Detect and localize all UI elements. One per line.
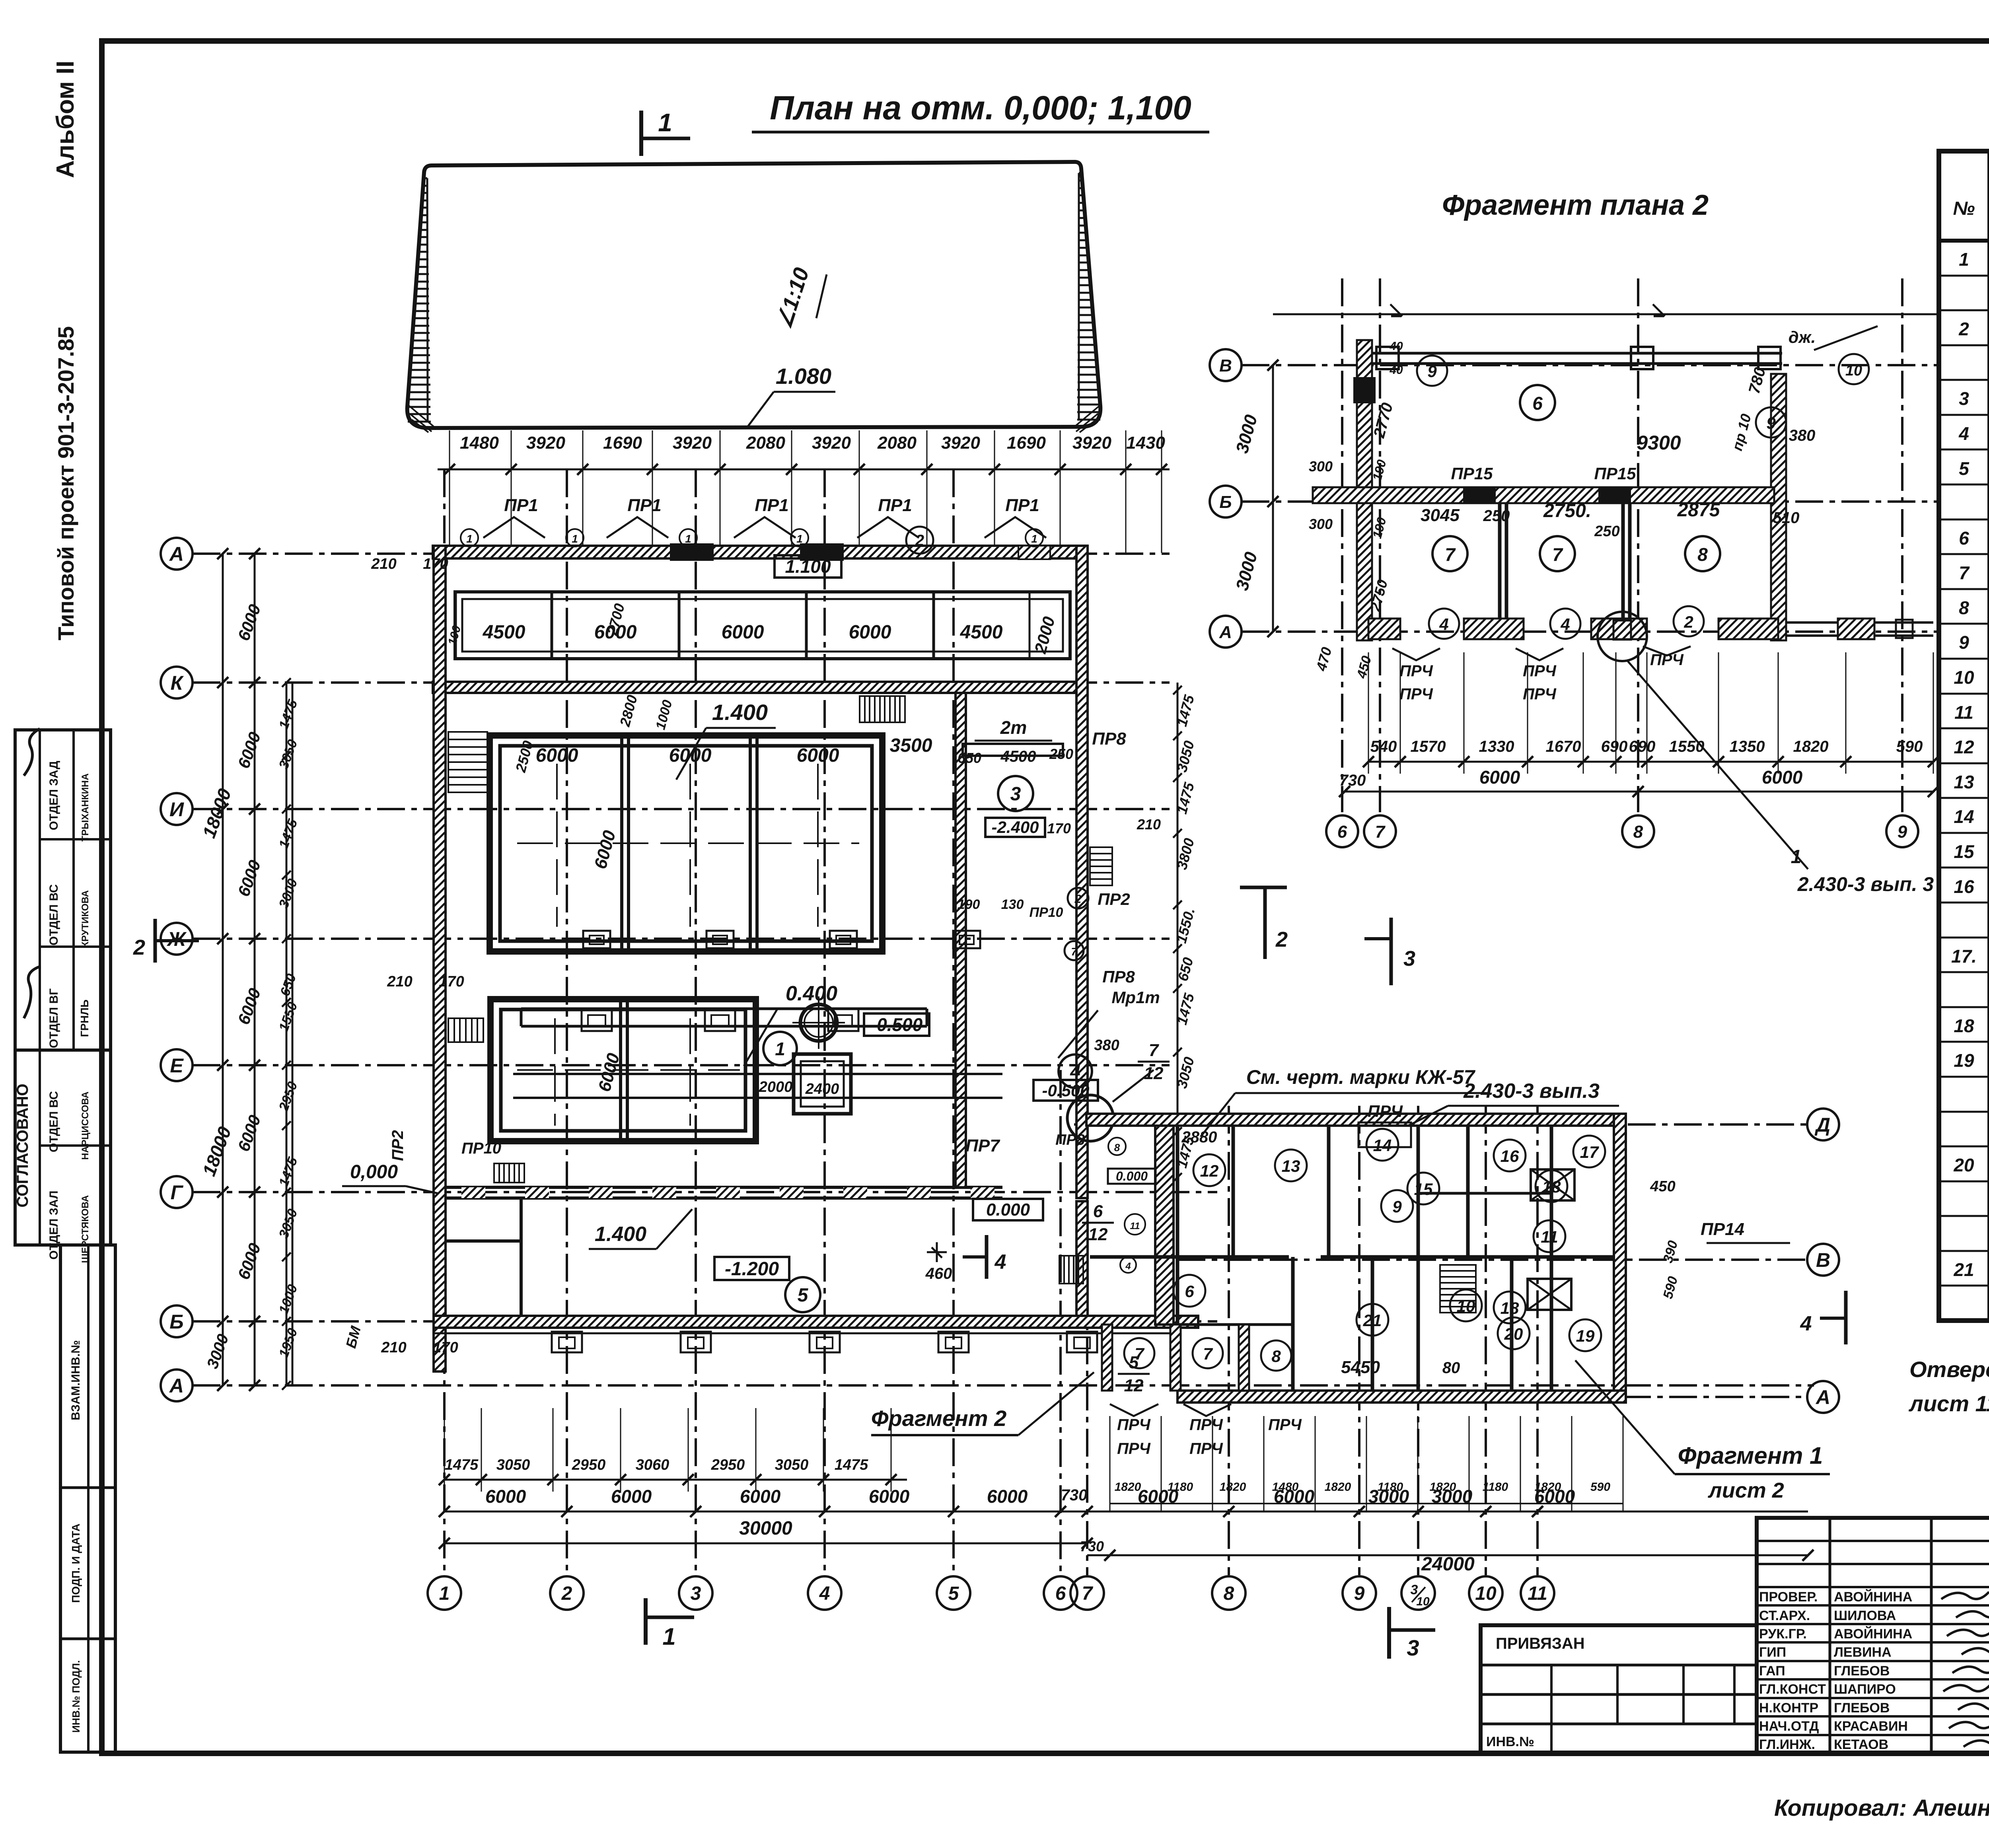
- svg-text:1475: 1475: [445, 1457, 479, 1473]
- svg-text:1: 1: [796, 533, 803, 545]
- svg-text:6000: 6000: [1274, 1486, 1315, 1507]
- svg-text:12: 12: [1200, 1161, 1219, 1180]
- svg-text:См. черт. марки КЖ-57: См. черт. марки КЖ-57: [1246, 1066, 1476, 1088]
- svg-text:300: 300: [1309, 516, 1333, 532]
- wall axis A top: [433, 546, 1088, 558]
- room circle 1: [763, 1032, 797, 1065]
- wing partition axis V: [1090, 1255, 1289, 1259]
- svg-text:1480: 1480: [460, 433, 499, 453]
- svg-text:6000: 6000: [611, 1486, 652, 1507]
- svg-text:ПР8: ПР8: [1102, 967, 1135, 986]
- upper tanks outer: [490, 735, 882, 951]
- svg-text:730: 730: [1080, 1538, 1104, 1554]
- room circle 3: [998, 776, 1033, 811]
- svg-text:6000: 6000: [536, 745, 578, 766]
- svg-text:40: 40: [1389, 364, 1403, 377]
- svg-text:2880: 2880: [1181, 1128, 1217, 1146]
- roof right cut hatch: [1079, 172, 1082, 174]
- svg-text:3920: 3920: [941, 433, 980, 453]
- svg-text:1: 1: [466, 533, 473, 545]
- svg-text:9: 9: [1898, 822, 1907, 842]
- svg-text:15: 15: [1954, 841, 1975, 862]
- svg-text:2т: 2т: [1000, 717, 1027, 738]
- right dim chain: [1177, 683, 1179, 1192]
- small stair axis E left: [448, 1018, 483, 1042]
- room circle 5: [785, 1277, 820, 1312]
- svg-text:1: 1: [572, 533, 578, 545]
- svg-text:2: 2: [1275, 928, 1288, 951]
- svg-text:130: 130: [1001, 897, 1024, 912]
- svg-text:250: 250: [1594, 523, 1619, 540]
- svg-text:Типовой проект 901-3-207.85: Типовой проект 901-3-207.85: [53, 326, 78, 640]
- svg-text:1: 1: [775, 1039, 785, 1059]
- svg-text:ИНВ.№ ПОДЛ.: ИНВ.№ ПОДЛ.: [70, 1660, 82, 1733]
- svg-text:10: 10: [1416, 1595, 1430, 1608]
- stair at G left: [494, 1163, 524, 1183]
- svg-text:4: 4: [994, 1251, 1006, 1274]
- column bases axis Zh: [583, 931, 610, 948]
- svg-text:15: 15: [1414, 1180, 1433, 1198]
- svg-text:3000: 3000: [1432, 1486, 1473, 1507]
- svg-text:4: 4: [1958, 423, 1969, 444]
- svg-text:8: 8: [1697, 544, 1708, 565]
- svg-text:16: 16: [1954, 876, 1974, 897]
- svg-text:6: 6: [1055, 1583, 1066, 1604]
- fragment room circles: [1520, 385, 1555, 420]
- svg-text:12: 12: [1954, 737, 1974, 757]
- svg-text:0,000: 0,000: [350, 1161, 398, 1183]
- section mark 1 top: [639, 111, 643, 156]
- svg-text:4: 4: [819, 1583, 830, 1604]
- svg-text:7: 7: [1203, 1344, 1213, 1363]
- svg-text:5: 5: [798, 1285, 809, 1306]
- svg-text:7: 7: [1071, 945, 1078, 958]
- svg-text:1820: 1820: [1220, 1480, 1246, 1494]
- stair at K: [860, 696, 905, 722]
- svg-text:1670: 1670: [1546, 738, 1581, 755]
- 6000 dim row: [444, 1511, 1808, 1513]
- right exterior wall lower segment: [1076, 1201, 1088, 1321]
- svg-text:210: 210: [1137, 816, 1161, 833]
- svg-text:В: В: [1219, 356, 1232, 375]
- svg-text:ПР10: ПР10: [1030, 905, 1063, 920]
- svg-text:7: 7: [1375, 822, 1386, 842]
- svg-text:11: 11: [1130, 1221, 1140, 1231]
- svg-text:6000: 6000: [1479, 767, 1520, 788]
- svg-text:ГРНЛЬ: ГРНЛЬ: [78, 1000, 91, 1037]
- svg-text:21: 21: [1363, 1311, 1382, 1330]
- interior partition G-B left rooms: [446, 1239, 521, 1243]
- stair left wall: [448, 732, 487, 792]
- fragment axes: [1242, 364, 1941, 366]
- svg-text:ГЛЕБОВ: ГЛЕБОВ: [1834, 1663, 1890, 1679]
- svg-text:4: 4: [1125, 1261, 1131, 1272]
- svg-text:2080: 2080: [746, 433, 785, 453]
- svg-text:3920: 3920: [812, 433, 851, 453]
- stair right wall mid: [1090, 847, 1112, 885]
- svg-text:НАЧ.ОТД: НАЧ.ОТД: [1759, 1719, 1819, 1734]
- roof outline: [407, 162, 1101, 428]
- svg-text:Б: Б: [169, 1311, 183, 1333]
- fragment A wall piers: [1368, 619, 1400, 639]
- svg-text:2: 2: [1074, 893, 1082, 906]
- svg-text:8: 8: [1959, 597, 1969, 618]
- svg-text:6000: 6000: [1138, 1486, 1179, 1507]
- wing bottom wall axis A: [1177, 1391, 1626, 1403]
- svg-text:40: 40: [1389, 340, 1403, 353]
- svg-text:2875: 2875: [1677, 500, 1720, 521]
- svg-text:ПРЧ: ПРЧ: [1189, 1416, 1223, 1434]
- svg-text:ОТДЕЛ ЗАЛ: ОТДЕЛ ЗАЛ: [47, 1191, 60, 1260]
- wing axes D V right: [1074, 1123, 1808, 1126]
- svg-text:АВОЙНИНА: АВОЙНИНА: [1834, 1626, 1912, 1642]
- 30000 24000 rows: [444, 1543, 1087, 1545]
- wall axis G: [446, 1186, 1002, 1189]
- svg-text:1350: 1350: [1730, 738, 1765, 755]
- title block outer: [1481, 1625, 1757, 1753]
- svg-text:ГЛ.ИНЖ.: ГЛ.ИНЖ.: [1759, 1737, 1815, 1752]
- svg-text:19: 19: [1954, 1050, 1974, 1071]
- svg-text:1475: 1475: [835, 1457, 868, 1473]
- svg-text:7: 7: [1959, 562, 1970, 583]
- svg-text:ПРЧ: ПРЧ: [1117, 1440, 1150, 1457]
- svg-text:ПР1: ПР1: [504, 496, 538, 515]
- svg-text:3920: 3920: [673, 433, 712, 453]
- svg-text:18: 18: [1954, 1015, 1974, 1036]
- svg-text:170: 170: [1047, 820, 1071, 836]
- svg-text:460: 460: [925, 1265, 952, 1282]
- svg-text:12: 12: [1124, 1376, 1144, 1395]
- svg-text:7: 7: [1552, 544, 1563, 565]
- left exterior wall axis 1: [434, 546, 446, 1371]
- svg-text:650: 650: [958, 750, 981, 766]
- svg-text:К: К: [171, 672, 184, 694]
- junction wall col6-7: [1155, 1120, 1174, 1325]
- svg-text:ПР15: ПР15: [1451, 464, 1493, 483]
- svg-text:5450: 5450: [1341, 1358, 1380, 1377]
- wing wall axis D top: [1086, 1114, 1625, 1126]
- svg-text:4: 4: [1800, 1312, 1812, 1335]
- fragment right wall: [1771, 374, 1786, 640]
- rooms 7 7 8 block: [1102, 1325, 1112, 1391]
- svg-text:2950: 2950: [572, 1457, 606, 1473]
- svg-text:18: 18: [1501, 1299, 1519, 1317]
- svg-text:690: 690: [1601, 738, 1628, 755]
- svg-text:ПРЧ: ПРЧ: [1117, 1416, 1150, 1434]
- wing small partitions horizontal: [1418, 1192, 1551, 1195]
- svg-text:ПР10: ПР10: [461, 1140, 501, 1157]
- vertical column axes 1-11: [443, 469, 446, 1575]
- svg-text:ГИП: ГИП: [1759, 1645, 1786, 1660]
- boxed 1.100: [775, 555, 841, 578]
- svg-text:3: 3: [691, 1583, 701, 1604]
- svg-text:210: 210: [371, 556, 396, 572]
- svg-text:КЕТАОВ: КЕТАОВ: [1834, 1737, 1888, 1752]
- svg-text:ТРЫХАНКИНА: ТРЫХАНКИНА: [80, 773, 91, 841]
- svg-text:ПРЧ: ПРЧ: [1189, 1440, 1223, 1457]
- svg-text:ОТДЕЛ ВГ: ОТДЕЛ ВГ: [47, 988, 60, 1048]
- section mark 2 left: [154, 919, 157, 963]
- svg-text:Г: Г: [171, 1181, 184, 1204]
- svg-text:6000: 6000: [1762, 767, 1803, 788]
- svg-text:КРАСАВИН: КРАСАВИН: [1834, 1719, 1908, 1734]
- section mark 3 bottom: [1387, 1607, 1391, 1659]
- margin stamp column VZAM/PODP/INV: [60, 1245, 115, 1752]
- svg-text:ПРЧ: ПРЧ: [1268, 1416, 1302, 1434]
- svg-text:А: А: [169, 543, 184, 565]
- svg-text:ИНВ.№: ИНВ.№: [1486, 1734, 1534, 1749]
- svg-text:8: 8: [1271, 1347, 1281, 1366]
- svg-text:6: 6: [1093, 1202, 1103, 1221]
- svg-text:4500: 4500: [960, 622, 1003, 643]
- svg-text:590: 590: [1590, 1480, 1610, 1494]
- left dim chain lines: [222, 554, 224, 1385]
- svg-text:ОТДЕЛ ВС: ОТДЕЛ ВС: [47, 884, 60, 945]
- svg-text:250: 250: [1049, 746, 1073, 762]
- level -0.500 boxed: [864, 1013, 929, 1036]
- svg-text:ШАПИРО: ШАПИРО: [1834, 1682, 1896, 1697]
- boxed -1.200: [714, 1257, 789, 1280]
- svg-text:1: 1: [1031, 533, 1037, 545]
- svg-text:ПР2: ПР2: [389, 1130, 407, 1161]
- svg-text:1: 1: [685, 533, 691, 545]
- roof left cut hatch: [424, 177, 427, 179]
- svg-text:12: 12: [1088, 1225, 1108, 1244]
- svg-text:Копировал: Алешникова: Копировал: Алешникова: [1774, 1795, 1989, 1821]
- svg-text:3: 3: [1407, 1635, 1419, 1660]
- explication table grid: [1939, 151, 1989, 1321]
- fragment left wall: [1357, 340, 1372, 640]
- svg-text:1330: 1330: [1479, 738, 1514, 755]
- svg-text:10: 10: [1954, 667, 1974, 688]
- svg-text:590: 590: [1896, 738, 1923, 755]
- svg-text:3920: 3920: [526, 433, 565, 453]
- svg-text:190: 190: [958, 897, 980, 912]
- svg-text:6000: 6000: [722, 622, 764, 643]
- svg-text:7: 7: [1445, 544, 1456, 565]
- wing partitions vertical: [1176, 1126, 1179, 1391]
- svg-text:ПР1: ПР1: [627, 496, 661, 515]
- svg-text:3050: 3050: [775, 1457, 809, 1473]
- svg-text:3000: 3000: [1368, 1486, 1409, 1507]
- svg-text:И: И: [169, 798, 184, 821]
- svg-text:3045: 3045: [1421, 506, 1460, 525]
- svg-text:13: 13: [1954, 772, 1974, 792]
- svg-text:ПР8: ПР8: [1055, 1132, 1085, 1148]
- svg-text:Альбом II: Альбом II: [52, 60, 79, 178]
- svg-text:ПРЧ: ПРЧ: [1399, 662, 1433, 680]
- svg-text:6000: 6000: [1534, 1486, 1575, 1507]
- room circle 2: [906, 527, 933, 554]
- svg-text:17.: 17.: [1951, 946, 1977, 967]
- svg-text:8: 8: [1224, 1583, 1234, 1604]
- svg-text:380: 380: [1094, 1037, 1119, 1054]
- svg-text:19: 19: [1576, 1327, 1595, 1345]
- svg-text:8: 8: [1114, 1142, 1120, 1154]
- platform band: [521, 1008, 927, 1010]
- wall axis K: [433, 682, 1088, 693]
- svg-text:250: 250: [1483, 507, 1510, 525]
- shaft cross symbols: [1531, 1169, 1574, 1200]
- svg-text:10: 10: [1475, 1583, 1497, 1604]
- svg-text:СОГЛАСОВАНО: СОГЛАСОВАНО: [14, 1084, 31, 1207]
- svg-text:3: 3: [1403, 947, 1415, 971]
- svg-text:21: 21: [1953, 1259, 1974, 1280]
- svg-text:А: А: [169, 1375, 184, 1397]
- svg-text:170: 170: [423, 556, 448, 572]
- small 1-circles on axis A: [461, 529, 478, 547]
- fragment partitions: [1498, 503, 1502, 621]
- svg-text:3: 3: [1010, 784, 1021, 805]
- svg-text:2.430-3 вып.3: 2.430-3 вып.3: [1463, 1080, 1600, 1103]
- svg-text:Отверстия в стенах и перегород: Отверстия в стенах и перегородках см.: [1909, 1357, 1989, 1382]
- svg-text:1: 1: [1959, 249, 1969, 270]
- svg-text:6000: 6000: [485, 1486, 526, 1507]
- svg-text:9: 9: [1392, 1197, 1402, 1216]
- central signatures table: [1829, 1518, 1831, 1753]
- wall axis B bottom: [434, 1316, 1198, 1328]
- svg-text:6000: 6000: [740, 1486, 781, 1507]
- svg-text:1: 1: [662, 1623, 675, 1650]
- svg-text:0.000: 0.000: [1116, 1169, 1148, 1183]
- wing stair room 10: [1440, 1265, 1476, 1313]
- lintel blobs on wall A: [671, 544, 713, 560]
- svg-text:А: А: [1815, 1386, 1830, 1408]
- svg-text:9: 9: [1766, 414, 1776, 432]
- tank center marks: [556, 764, 558, 927]
- window band outer: [455, 592, 1070, 659]
- svg-text:5: 5: [1959, 458, 1970, 479]
- svg-text:Б: Б: [1219, 492, 1232, 512]
- svg-text:0.000: 0.000: [986, 1200, 1030, 1220]
- svg-text:ПР1: ПР1: [878, 496, 912, 515]
- svg-text:210: 210: [387, 973, 412, 990]
- svg-text:4: 4: [1560, 615, 1570, 634]
- tank dividers: [620, 738, 623, 949]
- svg-text:24000: 24000: [1421, 1554, 1475, 1575]
- svg-text:20: 20: [1504, 1325, 1523, 1343]
- svg-text:7: 7: [1082, 1583, 1094, 1604]
- svg-text:6: 6: [1185, 1282, 1194, 1301]
- svg-text:6000: 6000: [797, 745, 839, 766]
- wing room circles: [1193, 1154, 1225, 1186]
- svg-text:ОТДЕЛ ЗАД: ОТДЕЛ ЗАД: [47, 761, 60, 831]
- svg-text:80: 80: [1442, 1359, 1460, 1377]
- svg-text:ПР14: ПР14: [1701, 1220, 1744, 1239]
- svg-text:ПР2: ПР2: [1098, 890, 1130, 908]
- svg-text:ОТДЕЛ ВС: ОТДЕЛ ВС: [47, 1091, 60, 1152]
- svg-text:9300: 9300: [1637, 432, 1681, 454]
- svg-text:1: 1: [658, 108, 672, 137]
- svg-text:2000: 2000: [759, 1079, 793, 1095]
- svg-text:-2.400: -2.400: [991, 818, 1039, 836]
- svg-text:3920: 3920: [1072, 433, 1111, 453]
- svg-text:3: 3: [1959, 388, 1969, 409]
- interior wall col5-6 vertical: [956, 693, 966, 1187]
- svg-text:СТ.АРХ.: СТ.АРХ.: [1759, 1608, 1810, 1623]
- svg-text:ПРЧ: ПРЧ: [1399, 685, 1433, 703]
- svg-text:4500: 4500: [1000, 748, 1036, 765]
- svg-text:2950: 2950: [711, 1457, 745, 1473]
- svg-text:Н.КОНТР: Н.КОНТР: [1759, 1700, 1818, 1716]
- right exterior wall upper: [1076, 546, 1088, 1198]
- svg-text:1820: 1820: [1325, 1480, 1351, 1494]
- svg-text:7: 7: [1135, 1344, 1144, 1363]
- svg-text:4500: 4500: [483, 622, 525, 643]
- svg-text:Е: Е: [170, 1054, 184, 1077]
- svg-text:11: 11: [1528, 1583, 1547, 1604]
- svg-text:№: №: [1953, 198, 1975, 219]
- pit 2400: [794, 1054, 851, 1114]
- svg-text:14: 14: [1954, 806, 1974, 827]
- svg-text:Д: Д: [1814, 1114, 1830, 1136]
- manhole circle: [800, 1004, 837, 1041]
- section mark 4: [985, 1235, 989, 1279]
- svg-text:8: 8: [1633, 822, 1643, 842]
- svg-text:14: 14: [1373, 1136, 1392, 1155]
- svg-text:7: 7: [1149, 1041, 1160, 1060]
- svg-text:17: 17: [1580, 1143, 1599, 1161]
- svg-text:лист 2: лист 2: [1707, 1478, 1784, 1502]
- svg-text:лист 11.: лист 11.: [1908, 1391, 1989, 1416]
- svg-text:1690: 1690: [1007, 433, 1046, 453]
- svg-text:ПРЧ: ПРЧ: [1368, 1102, 1403, 1120]
- svg-text:КРУТИКОВА: КРУТИКОВА: [80, 890, 91, 947]
- svg-text:ШИЛОВА: ШИЛОВА: [1834, 1608, 1896, 1623]
- svg-text:4: 4: [1439, 615, 1448, 634]
- svg-text:2: 2: [1958, 319, 1969, 339]
- svg-text:1570: 1570: [1411, 738, 1446, 755]
- svg-text:ПР1: ПР1: [1005, 496, 1039, 515]
- svg-text:1820: 1820: [1115, 1480, 1141, 1494]
- svg-text:АВОЙНИНА: АВОЙНИНА: [1834, 1589, 1912, 1605]
- svg-text:В: В: [1816, 1249, 1830, 1271]
- svg-text:170: 170: [439, 973, 464, 990]
- svg-text:3060: 3060: [636, 1457, 669, 1473]
- svg-text:1.080: 1.080: [776, 364, 831, 389]
- fragment B wall: [1313, 487, 1774, 503]
- stair right col: [1059, 1256, 1083, 1284]
- svg-text:ПРЧ: ПРЧ: [1650, 651, 1683, 669]
- svg-text:2: 2: [133, 936, 145, 959]
- svg-text:ГЛ.КОНСТ: ГЛ.КОНСТ: [1759, 1682, 1826, 1697]
- svg-text:1: 1: [1791, 846, 1802, 868]
- svg-text:16: 16: [1501, 1147, 1519, 1165]
- section mark 3 mid: [1390, 918, 1393, 985]
- svg-text:План на отм. 0,000; 1,100: План на отм. 0,000; 1,100: [770, 89, 1191, 126]
- svg-text:1.100: 1.100: [785, 556, 831, 577]
- section mark 2 mid: [1240, 886, 1287, 889]
- svg-text:540: 540: [1370, 738, 1397, 755]
- svg-text:510: 510: [1773, 509, 1800, 527]
- section mark 1 bottom: [644, 1598, 648, 1645]
- svg-text:170: 170: [433, 1339, 458, 1356]
- svg-text:20: 20: [1953, 1155, 1974, 1175]
- svg-text:6: 6: [1959, 528, 1969, 549]
- svg-text:450: 450: [1650, 1178, 1675, 1195]
- svg-text:11: 11: [1541, 1227, 1558, 1246]
- svg-text:1820: 1820: [1793, 738, 1829, 755]
- svg-text:2: 2: [1683, 613, 1693, 631]
- svg-text:Фрагмент плана 2: Фрагмент плана 2: [1442, 189, 1709, 221]
- svg-text:1.400: 1.400: [712, 700, 768, 725]
- svg-text:ГЛЕБОВ: ГЛЕБОВ: [1834, 1700, 1890, 1716]
- svg-text:2750.: 2750.: [1543, 500, 1591, 521]
- svg-text:9: 9: [1959, 632, 1969, 653]
- svg-text:дж.: дж.: [1789, 328, 1816, 346]
- svg-text:ВЗАМ.ИНВ.№: ВЗАМ.ИНВ.№: [69, 1340, 82, 1420]
- svg-text:3500: 3500: [890, 735, 932, 756]
